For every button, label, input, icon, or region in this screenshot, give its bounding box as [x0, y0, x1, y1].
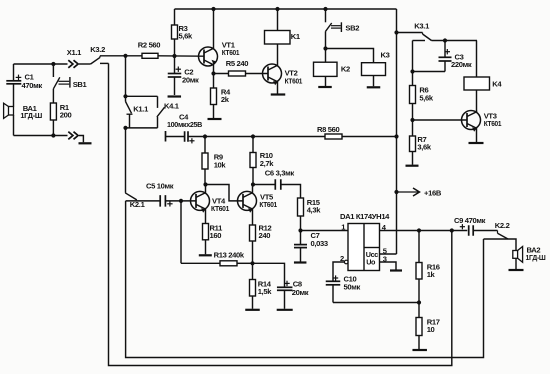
- node AA R16/R17/C10 junction: [417, 300, 421, 304]
- svg-text:200: 200: [60, 110, 72, 119]
- power output +16В: [397, 191, 419, 193]
- push button SB2: [325, 9, 327, 22]
- pin 2 circle: [344, 260, 348, 264]
- node E switch-rect top-left: [123, 94, 127, 98]
- node P VT3 base node: [410, 118, 414, 122]
- svg-text:R2 560: R2 560: [138, 40, 161, 49]
- resistor R8 560: [325, 134, 342, 139]
- wire main right rail x396.5: [396, 9, 398, 254]
- wire K2.1 throw to C5: [126, 200, 160, 202]
- wire C4 to R8 to rail: [188, 136, 397, 138]
- node Z rail B top: [450, 228, 454, 232]
- resistor R12 240: [250, 225, 256, 241]
- capacitor C6 3,3мк: [253, 184, 275, 186]
- svg-text:K4: K4: [492, 80, 502, 89]
- wire R13 riser: [180, 201, 182, 263]
- VT1 collector: [204, 9, 214, 53]
- svg-text:20мк: 20мк: [182, 76, 199, 85]
- wire K2.2 contact line: [484, 239, 517, 251]
- node F switch-rect bottom-left: [123, 126, 127, 130]
- resistor R3 5,6k: [174, 9, 176, 25]
- resistor R6 5,6k: [412, 72, 414, 86]
- relay contact K2.1: [125, 193, 137, 200]
- node X DA1 pin1 node: [298, 228, 302, 232]
- svg-text:5,6k: 5,6k: [179, 32, 194, 41]
- node N C3 top: [443, 38, 447, 42]
- resistor R15 4,3k: [298, 198, 304, 216]
- node R +16V junction: [394, 190, 398, 194]
- VT3 collector: [467, 112, 477, 117]
- transistor VT1 КТ601: [199, 47, 218, 66]
- wire VT4-VT5 coupling: [206, 185, 244, 201]
- svg-text:2,7k: 2,7k: [260, 159, 275, 168]
- node M K3.1 branch: [394, 30, 398, 34]
- wire x413 down: [412, 41, 414, 72]
- wire K3.2 lower throw stub: [100, 62, 109, 64]
- pin 2 wire: [333, 262, 344, 281]
- wire X1.1 to K3.2: [79, 63, 91, 65]
- svg-text:SB2: SB2: [345, 24, 359, 33]
- node Y R16 top: [417, 228, 421, 232]
- svg-text:20мк: 20мк: [292, 288, 309, 297]
- ground R14: [245, 309, 260, 311]
- resistor R9 10k: [204, 137, 206, 154]
- svg-text:K1: K1: [291, 32, 301, 41]
- svg-text:+16В: +16В: [424, 189, 442, 198]
- svg-text:Uо: Uо: [366, 257, 376, 266]
- relay coil K3: [362, 63, 386, 76]
- wire C3 bottom to R6 top: [413, 71, 446, 73]
- wire C5 to VT4 base: [165, 200, 196, 202]
- resistor R13 240k: [181, 262, 220, 264]
- svg-text:C5 10мк: C5 10мк: [146, 182, 174, 191]
- svg-text:2k: 2k: [221, 95, 230, 104]
- svg-text:470мк: 470мк: [22, 81, 43, 90]
- svg-text:10: 10: [427, 325, 435, 334]
- VT3 emitter with arrow: [467, 124, 477, 143]
- resistor R5 240: [229, 71, 246, 76]
- wire R5 line: [214, 73, 269, 75]
- node S R9 top: [203, 134, 207, 138]
- svg-text:240: 240: [259, 231, 271, 240]
- node O R6 top junction: [410, 69, 414, 73]
- svg-text:R5 240: R5 240: [226, 59, 249, 68]
- node B junction R1 bottom: [51, 133, 55, 137]
- wire main line y56 K3.2 to VT1 base: [100, 55, 142, 57]
- svg-text:DA1 К174УН14: DA1 К174УН14: [340, 212, 390, 221]
- node J K1 on rail: [275, 7, 279, 11]
- svg-text:SB1: SB1: [73, 80, 88, 89]
- wire C10 bottom to R16/R17: [333, 302, 419, 304]
- svg-text:100мкх25В: 100мкх25В: [167, 120, 203, 129]
- resistor R16 1k: [418, 231, 420, 263]
- connector X1.1: [68, 60, 73, 68]
- VT4 emitter with arrow: [196, 204, 206, 223]
- svg-text:1ГД-Ш: 1ГД-Ш: [20, 111, 42, 120]
- svg-text:КТ601: КТ601: [285, 76, 303, 85]
- svg-text:50мк: 50мк: [344, 282, 361, 291]
- relay coil K1: [277, 9, 279, 31]
- wire top-left from C1 to X1.1: [14, 63, 68, 65]
- VT2 collector: [268, 44, 278, 70]
- connector X1.2 with ground: [68, 132, 73, 140]
- resistor R1 200: [52, 89, 54, 103]
- resistor R17 10: [418, 303, 420, 318]
- pin 3 wire to ground: [380, 262, 397, 270]
- node W R12/R13/R14 junction: [250, 261, 254, 265]
- ground BA2: [509, 269, 524, 271]
- svg-text:C9 470мк: C9 470мк: [454, 216, 486, 225]
- node K SB2 on rail: [323, 7, 327, 11]
- svg-text:X1.1: X1.1: [67, 48, 82, 57]
- op-amp U1 DA1 К174УН14 box: [348, 224, 380, 271]
- VT4 collector: [196, 185, 206, 198]
- ground K3: [367, 86, 381, 88]
- svg-text:K3.2: K3.2: [90, 45, 105, 54]
- svg-text:220мк: 220мк: [451, 60, 472, 69]
- relay coil K2: [314, 62, 338, 76]
- ground VT3 emitter: [469, 142, 484, 144]
- svg-text:4,3k: 4,3k: [307, 206, 322, 215]
- svg-text:3,6k: 3,6k: [417, 143, 432, 152]
- wire K3.1 output line: [432, 40, 478, 42]
- wire switch-rect top edge: [126, 95, 158, 97]
- capacitor C7 0,033: [300, 231, 302, 245]
- wire bottom-left to X1.2: [14, 135, 68, 137]
- node I VT1 emitter node: [211, 71, 215, 75]
- wire to DA1 pin 1: [301, 230, 349, 232]
- svg-text:0,033: 0,033: [311, 239, 328, 248]
- wire switch-rect bottom edge: [126, 127, 158, 129]
- wire K2.1 rail: [125, 128, 127, 193]
- svg-text:R8 560: R8 560: [317, 125, 340, 134]
- speaker BA2 1ГД-Ш: [513, 251, 518, 259]
- wire VT3 base line: [413, 119, 468, 121]
- capacitor C5 10мк: [159, 195, 161, 207]
- ground R11: [199, 254, 212, 256]
- VT2 emitter with arrow: [268, 77, 278, 94]
- wire K1.1 rail upper: [125, 56, 127, 97]
- ground R17: [412, 349, 427, 351]
- transistor VT4 КТ601: [191, 191, 210, 210]
- wire C6 to R15: [281, 185, 301, 199]
- svg-text:1,5k: 1,5k: [258, 287, 273, 296]
- svg-text:КТ601: КТ601: [484, 119, 502, 128]
- svg-text:160: 160: [210, 231, 222, 240]
- svg-text:K4.1: K4.1: [164, 101, 180, 110]
- wire C9 to K2.2: [473, 230, 497, 232]
- svg-text:1k: 1k: [427, 270, 436, 279]
- node U VT4 collector node: [203, 182, 207, 186]
- resistor R11 160: [203, 224, 209, 240]
- svg-text:R13 240k: R13 240k: [214, 251, 245, 260]
- wire to K3: [326, 49, 374, 63]
- relay contact K3.2: [91, 57, 100, 64]
- svg-text:K2: K2: [341, 65, 350, 74]
- relay contact K1.1: [125, 96, 127, 101]
- transistor VT5 КТ601: [238, 191, 257, 210]
- pin 5 wire: [380, 253, 397, 255]
- relay contact K2.2: [497, 231, 499, 234]
- svg-text:КТ601: КТ601: [211, 204, 230, 213]
- capacitor C4 100мкх25В: [165, 131, 167, 142]
- VT1 emitter with arrow: [204, 60, 214, 74]
- VT5 emitter with arrow: [243, 204, 253, 225]
- ground C7: [294, 261, 307, 263]
- node T R10 top: [251, 134, 255, 138]
- transistor VT3 КТ601: [462, 111, 481, 130]
- wire long return rail A (K2.1 to K2.2 net): [126, 201, 484, 358]
- svg-text:КТ601: КТ601: [259, 200, 277, 209]
- svg-text:5,6k: 5,6k: [419, 94, 434, 103]
- resistor R4 2k: [213, 74, 215, 89]
- ground pin 3: [390, 269, 402, 271]
- node Q R8 junction on rail: [394, 134, 398, 138]
- speaker BA1 1ГД-Ш: [9, 107, 14, 116]
- transistor VT2 КТ601: [263, 64, 282, 83]
- node D R3/C2 junction: [172, 54, 176, 58]
- ground C8: [277, 309, 293, 311]
- svg-text:C6 3,3мк: C6 3,3мк: [265, 169, 295, 178]
- relay contact K4.1: [157, 96, 159, 108]
- wire top supply rail: [175, 8, 397, 10]
- node G VT4-base/R13 junction: [179, 199, 183, 203]
- resistor R10 2,7k: [252, 137, 254, 153]
- svg-text:1ГД-Ш: 1ГД-Ш: [526, 253, 547, 262]
- relay coil K4: [476, 41, 478, 78]
- ground VT2 emitter: [271, 93, 286, 95]
- resistor R14 1,5k: [252, 263, 254, 279]
- ground C2: [168, 95, 182, 97]
- svg-text:K1.1: K1.1: [133, 105, 149, 114]
- capacitor C3 220мк: [444, 41, 446, 57]
- node H VT1 collector on rail: [211, 7, 215, 11]
- push button SB1: [52, 64, 54, 77]
- svg-text:K3: K3: [381, 51, 390, 60]
- node C K1.1 branch: [123, 54, 127, 58]
- node A junction of SB1/R1 top: [51, 62, 55, 66]
- relay contact K3.1: [397, 32, 423, 34]
- pin 4 output wire: [380, 230, 468, 232]
- svg-text:K2.2: K2.2: [495, 221, 510, 230]
- svg-text:10k: 10k: [214, 160, 227, 169]
- wire long return rail B (K3.2 to C9 net): [109, 63, 452, 365]
- capacitor C10 50мк: [326, 280, 341, 282]
- node V VT5 collector node: [251, 182, 255, 186]
- svg-text:K3.1: K3.1: [414, 22, 430, 31]
- node L K2/K3 branch: [323, 46, 327, 50]
- VT5 collector: [243, 185, 253, 198]
- wire R13 node to C8: [253, 263, 285, 287]
- capacitor C9 470мк: [468, 225, 470, 236]
- wire K3.1 throw stub: [413, 40, 426, 42]
- resistor R7 3,6k: [410, 136, 416, 152]
- capacitor C1 470мк: [13, 64, 15, 80]
- capacitor C2 20мк: [174, 56, 176, 73]
- ground R7: [406, 165, 419, 167]
- ground R4: [208, 118, 222, 120]
- capacitor C8 20мк: [277, 286, 293, 288]
- resistor R2 560: [142, 53, 158, 58]
- svg-text:КТ601: КТ601: [222, 48, 240, 57]
- ground K2: [318, 86, 332, 88]
